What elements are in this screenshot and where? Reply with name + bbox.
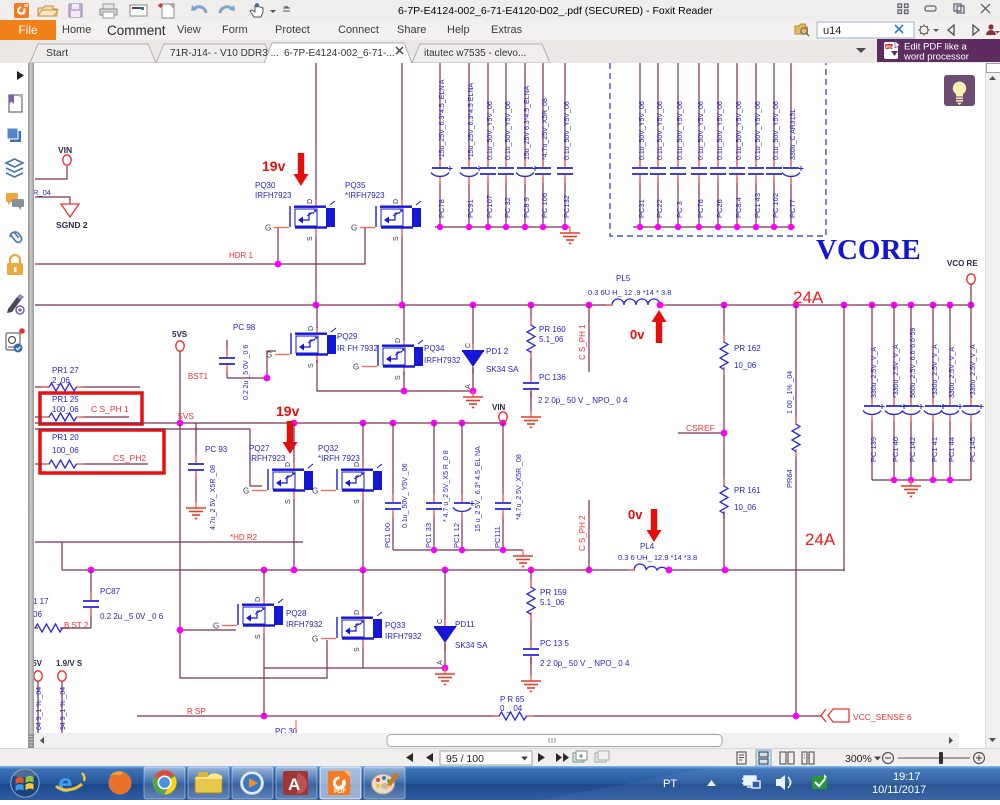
svg-text:PR1 27: PR1 27: [52, 366, 79, 375]
start orb: [10, 768, 40, 798]
resistor PR162: [723, 305, 725, 486]
transistor PQ28: [213, 597, 283, 639]
svg-text:IRFH7923: IRFH7923: [249, 454, 286, 463]
svg-text:PC91: PC91: [466, 199, 475, 218]
svg-text:330u_2.5V_V_A: 330u_2.5V_V_A: [949, 347, 956, 398]
svg-text:SK34 SA: SK34 SA: [486, 365, 519, 374]
svg-text:PT: PT: [663, 778, 677, 790]
svg-text:0v: 0v: [628, 507, 643, 522]
svg-text:0.2 2u _5 0V _0 6: 0.2 2u _5 0V _0 6: [243, 345, 250, 400]
annotation arrow down 19v: [294, 153, 309, 186]
svg-text:94 9_1 % _04: 94 9_1 % _04: [60, 687, 67, 730]
svg-text:CS_PH2: CS_PH2: [113, 453, 146, 463]
svg-text:HDR 1: HDR 1: [229, 251, 254, 260]
svg-text:6-7P-E4124-002_6-71-E4120-D02_: 6-7P-E4124-002_6-71-E4120-D02_.pdf (SECU…: [398, 5, 713, 17]
svg-text:e: e: [58, 768, 72, 798]
svg-text:PQ28: PQ28: [286, 609, 307, 618]
svg-text:2_06: 2_06: [52, 376, 70, 385]
junction R SP dots: [261, 713, 268, 720]
Firefox: [108, 771, 131, 794]
wire PQ33 drain: [362, 570, 364, 611]
WMP box: [232, 767, 273, 799]
svg-text:PC 98: PC 98: [233, 323, 256, 332]
transistor PQ35: [351, 199, 421, 241]
ground PD12: [463, 391, 483, 408]
capacitor PC132: [557, 63, 573, 227]
svg-text:R SP: R SP: [187, 707, 206, 716]
svg-text:*330u_2.5V_V_A: *330u_2.5V_V_A: [970, 344, 977, 398]
capacitor PC136: [523, 374, 539, 398]
svg-text:P R 65: P R 65: [500, 695, 525, 704]
wire mid bank bottom rail: [393, 549, 523, 551]
ground PD11: [435, 668, 455, 685]
capacitor PC112: [452, 423, 482, 550]
svg-text:PC 106: PC 106: [540, 193, 549, 218]
svg-text:VIN: VIN: [58, 145, 72, 155]
svg-text:PR1 25: PR1 25: [52, 395, 79, 404]
svg-text:A: A: [437, 660, 444, 665]
svg-text:PQ27: PQ27: [249, 444, 270, 453]
svg-text:0 _ 04: 0 _ 04: [500, 704, 523, 713]
svg-text:24A: 24A: [793, 288, 824, 307]
svg-text:*HD R2: *HD R2: [230, 533, 258, 542]
svg-text:*4.7u_2 5V_X5R _08: *4.7u_2 5V_X5R _08: [516, 454, 523, 520]
junction HDR1: [275, 261, 282, 268]
svg-text:CSREF: CSREF: [686, 423, 715, 433]
svg-text:PL4: PL4: [640, 542, 655, 551]
svg-text:PC1 41: PC1 41: [930, 437, 939, 462]
svg-text:330u_C AR315L: 330u_C AR315L: [790, 109, 797, 160]
capacitor PC84: [729, 63, 745, 227]
svg-text:PDF: PDF: [334, 789, 346, 795]
wire PQ32 drain: [362, 423, 364, 463]
resistor PR161: [720, 479, 728, 519]
svg-text:u14: u14: [823, 25, 841, 37]
svg-text:0.2 2u _5 0V _0 6: 0.2 2u _5 0V _0 6: [100, 612, 164, 621]
svg-text:*15u_25V_6.3*4.5_ELN A: *15u_25V_6.3*4.5_ELN A: [439, 79, 446, 160]
svg-text:0.1u_50V_Y5V_06: 0.1u_50V_Y5V_06: [657, 101, 664, 160]
wire PQ33 source: [362, 647, 364, 668]
svg-text:PC8 9: PC8 9: [522, 197, 531, 218]
svg-text:PD1 2: PD1 2: [486, 347, 509, 356]
ground PC93: [186, 502, 206, 519]
capacitor PC91: [460, 63, 482, 227]
svg-text:PC 32: PC 32: [503, 197, 512, 218]
wire PQ28 source sense: [263, 668, 265, 716]
svg-text:PC 145: PC 145: [968, 437, 977, 462]
svg-text:5.1_06: 5.1_06: [539, 335, 564, 344]
capacitor PC100: [383, 423, 409, 550]
svg-text:PQ35: PQ35: [345, 181, 366, 190]
svg-text:2 2 0p_ 50 V _ NPO_ 0 4: 2 2 0p_ 50 V _ NPO_ 0 4: [540, 659, 630, 668]
wire PQ27 drain: [293, 423, 295, 463]
wire drain PQ30: [315, 63, 317, 200]
capacitor PC141: [924, 305, 946, 480]
svg-text:IRFH7923: IRFH7923: [255, 191, 292, 200]
wire VIN rail: [35, 422, 503, 424]
diode PD11: [444, 570, 446, 627]
svg-text:0.1u_50V_Y5V_06: 0.1u_50V_Y5V_06: [505, 101, 512, 160]
svg-text:100_06: 100_06: [52, 446, 79, 455]
wire bank2 bus: [633, 226, 795, 228]
svg-text:PC111: PC111: [493, 526, 502, 548]
IE: [56, 768, 84, 798]
capacitor PC102: [766, 63, 782, 227]
svg-text:*4.7u_25V_X5R_08: *4.7u_25V_X5R_08: [542, 98, 549, 160]
svg-text:0.1u_50V_Y5V_06: 0.1u_50V_Y5V_06: [564, 101, 571, 160]
wire source PQ30 to bus: [315, 236, 317, 305]
svg-text:0.3 6 UH_ 12.9 *14 *3.8: 0.3 6 UH_ 12.9 *14 *3.8: [618, 553, 697, 562]
capacitor PC133: [424, 423, 450, 550]
svg-text:PQ32: PQ32: [318, 444, 339, 453]
annotation red box CS_PH1: [40, 393, 142, 424]
svg-text:C S_PH 1: C S_PH 1: [578, 324, 587, 360]
wire bank1 bus: [435, 226, 570, 228]
svg-text:PDF: PDF: [886, 44, 895, 49]
capacitor PC139: [863, 305, 885, 480]
transistor PQ29: [266, 326, 336, 368]
svg-text:0v: 0v: [630, 327, 645, 342]
svg-text:0.1u_50V_Y5V_06: 0.1u_50V_Y5V_06: [755, 101, 762, 160]
ground output bank: [901, 480, 921, 497]
svg-text:PC 142: PC 142: [908, 437, 917, 462]
svg-text:PC87: PC87: [100, 587, 121, 596]
wire R SP line: [137, 715, 822, 717]
svg-text:*IRFH 7923: *IRFH 7923: [318, 454, 360, 463]
svg-text:VCC_SENSE 6: VCC_SENSE 6: [853, 712, 912, 722]
svg-text:*IRFH7923: *IRFH7923: [345, 191, 385, 200]
svg-text:1.9/V S: 1.9/V S: [56, 659, 83, 668]
svg-text:0.1u_50V_Y5V_06: 0.1u_50V_Y5V_06: [677, 101, 684, 160]
svg-text:0.1u_50V_Y5V_06: 0.1u_50V_Y5V_06: [717, 101, 724, 160]
ground bank1: [560, 227, 580, 244]
capacitor PC111: [493, 423, 523, 550]
node VCORE dashed box: [610, 63, 826, 236]
svg-text:VIN: VIN: [492, 403, 506, 412]
transistor PQ33: [312, 610, 382, 652]
ground PC135: [521, 675, 541, 692]
svg-text:15u_25V 6.3*4.5_ELNA: 15u_25V 6.3*4.5_ELNA: [524, 85, 531, 160]
svg-text:0.1u_50V_Y5V_06: 0.1u_50V_Y5V_06: [773, 101, 780, 160]
svg-text:PC76: PC76: [696, 199, 705, 218]
capacitor PC89: [516, 63, 538, 227]
svg-text:PC 136: PC 136: [539, 373, 566, 382]
svg-text:PC1 40: PC1 40: [891, 437, 900, 462]
resistor PR65: [492, 712, 534, 720]
svg-text:PC31: PC31: [637, 199, 646, 218]
svg-text:VCO RE: VCO RE: [947, 259, 978, 268]
svg-text:PC1 43: PC1 43: [753, 193, 762, 218]
svg-text:0.1u_50V_Y5V_06: 0.1u_50V_Y5V_06: [487, 101, 494, 160]
inductor PL5: [612, 299, 660, 305]
capacitor PC143: [748, 63, 764, 227]
svg-text:0.1u_50V_Y5V_06: 0.1u_50V_Y5V_06: [736, 101, 743, 160]
capacitor PC142: [902, 305, 924, 480]
svg-text:0.1u_ 50V_ Y5V _06: 0.1u_ 50V_ Y5V _06: [402, 463, 409, 528]
svg-text:R_04: R_04: [34, 188, 51, 197]
annotation 0v up arrow: [652, 310, 667, 343]
svg-text:64 9_1 % _04: 64 9_1 % _04: [36, 687, 43, 730]
svg-text:PC22: PC22: [655, 199, 664, 218]
node VCC_SENSE connector: [821, 709, 849, 722]
svg-text:19v: 19v: [276, 403, 300, 419]
svg-text:IR FH 7932: IR FH 7932: [337, 344, 378, 353]
capacitor PC93: [195, 423, 197, 502]
node VIN (left): [63, 155, 71, 165]
wire gate drive HDR2: [180, 423, 327, 678]
svg-text:5.1_06: 5.1_06: [540, 598, 565, 607]
wire low-side return: [317, 360, 473, 391]
ground SGND2 symbol: [61, 204, 79, 217]
wire PQ28 drain: [263, 570, 265, 598]
wire phase2 bus: [35, 542, 844, 571]
svg-text:PR 161: PR 161: [734, 486, 761, 495]
svg-text:330u_2.5V_V_A: 330u_2.5V_V_A: [871, 347, 878, 398]
junction VIN rail dots: [177, 420, 507, 427]
capacitor PC3: [670, 63, 686, 227]
wire PQ28 source: [264, 634, 445, 668]
svg-text:PC77: PC77: [788, 199, 797, 218]
svg-text:10_06: 10_06: [734, 361, 757, 370]
svg-text:IRFH7932: IRFH7932: [424, 356, 461, 365]
svg-text:PD11: PD11: [455, 620, 475, 629]
svg-text:IRFH7932: IRFH7932: [286, 620, 323, 629]
svg-text:PC8.4: PC8.4: [734, 197, 743, 218]
svg-text:95 / 100: 95 / 100: [446, 753, 484, 765]
net CS_PH2 sense wire: [588, 500, 590, 570]
capacitor PC32: [498, 63, 514, 227]
svg-text:PC26: PC26: [715, 199, 724, 218]
svg-text:19v: 19v: [262, 158, 286, 174]
svg-text:24A: 24A: [805, 530, 836, 549]
capacitor PC144: [941, 305, 963, 480]
svg-text:560u_2.5V_6.6*6.6*59: 560u_2.5V_6.6*6.6*59: [910, 327, 917, 398]
svg-text:PR 160: PR 160: [539, 325, 566, 334]
svg-text:5VS: 5VS: [178, 411, 194, 421]
capacitor PC31: [632, 63, 648, 227]
annotation red box CS_PH2: [40, 430, 164, 473]
resistor PR64: [795, 305, 797, 716]
svg-text:100_06: 100_06: [52, 405, 79, 414]
svg-text:06: 06: [34, 610, 42, 619]
svg-text:1 00_ 1% _04: 1 00_ 1% _04: [787, 371, 794, 414]
svg-text:PC107: PC107: [485, 195, 494, 218]
svg-text:PQ33: PQ33: [385, 621, 406, 630]
svg-text:PC 139: PC 139: [869, 437, 878, 462]
svg-text:300%: 300%: [845, 753, 872, 765]
resistor PR159: [530, 570, 532, 647]
svg-text:SK34 SA: SK34 SA: [455, 641, 488, 650]
wire drain PQ35: [401, 63, 403, 200]
svg-text:A: A: [465, 384, 472, 389]
junction bank2 dots: [637, 224, 794, 230]
wire SGND stub: [35, 197, 70, 204]
ground PC136: [521, 411, 541, 428]
svg-text:C: C: [437, 619, 444, 624]
capacitor PC87: [90, 570, 92, 628]
svg-text:PC1 33: PC1 33: [424, 523, 433, 548]
net CS_PH1 sense wire: [588, 305, 590, 372]
svg-text:PR 162: PR 162: [734, 344, 761, 353]
svg-text:C: C: [465, 343, 472, 348]
svg-text:PC78: PC78: [437, 199, 446, 218]
wire source PQ35 to bus: [401, 236, 403, 305]
svg-text:4.7u_2 5V_ X5R _08: 4.7u_2 5V_ X5R _08: [210, 465, 217, 530]
svg-text:PQ29: PQ29: [337, 332, 358, 341]
Chrome box: [144, 767, 185, 799]
wire main bus 24A: [35, 304, 971, 306]
svg-text:PC 13 5: PC 13 5: [540, 639, 569, 648]
svg-text:.5V: .5V: [34, 659, 43, 668]
transistor PQ34: [353, 338, 423, 380]
wire PQ32 source: [362, 499, 364, 571]
capacitor PC98: [226, 340, 228, 378]
diode PD12: [472, 305, 474, 351]
Access box: [276, 767, 317, 799]
svg-text:A: A: [288, 775, 300, 794]
svg-text:0.3 6U H_ 12 .9 *14 * 3.8: 0.3 6U H_ 12 .9 *14 * 3.8: [588, 288, 671, 297]
capacitor PC22: [650, 63, 666, 227]
capacitor PC77: [782, 63, 804, 227]
junction bank1 dots: [437, 224, 568, 230]
svg-text:*15u_25V_6.3*4.5 ELNA: *15u_25V_6.3*4.5 ELNA: [468, 83, 475, 160]
capacitor PC140: [885, 305, 907, 480]
ground mid bank: [513, 550, 533, 567]
svg-text:PC1 44: PC1 44: [947, 437, 956, 462]
Paint box: [364, 767, 405, 799]
svg-text:PC1 12: PC1 12: [452, 523, 461, 548]
capacitor PC107: [480, 63, 496, 227]
svg-text:2 2 0p_ 50 V _ NPO_ 0 4: 2 2 0p_ 50 V _ NPO_ 0 4: [538, 396, 628, 405]
wire HDR1: [35, 228, 365, 264]
capacitor PC145: [962, 305, 984, 480]
svg-text:PL5: PL5: [616, 274, 631, 283]
wire PQ27 source: [293, 499, 295, 571]
wire PQ34 drain: [403, 305, 405, 340]
svg-text:0.1u_50V_Y5V_06: 0.1u_50V_Y5V_06: [639, 101, 646, 160]
svg-text:SGND 2: SGND 2: [56, 220, 88, 230]
svg-text:*330u_2.5V_V_A: *330u_2.5V_V_A: [893, 344, 900, 398]
Explorer box: [188, 767, 229, 799]
svg-text:5VS: 5VS: [172, 330, 188, 339]
svg-text:10_06: 10_06: [734, 503, 757, 512]
wire PQ29 drain: [316, 305, 318, 328]
svg-text:PC 3: PC 3: [675, 201, 684, 218]
svg-text:BST1: BST1: [188, 372, 209, 381]
capacitor PC135: [523, 640, 539, 664]
svg-text:PC1 00: PC1 00: [383, 523, 392, 548]
svg-text:IRFH7932: IRFH7932: [385, 632, 422, 641]
resistor PR127: [35, 386, 140, 388]
svg-text:word processor: word processor: [903, 52, 969, 63]
svg-text:VCORE: VCORE: [816, 234, 921, 266]
svg-text:1 17: 1 17: [34, 597, 49, 606]
svg-text:*330u_2.5V_V_A: *330u_2.5V_V_A: [932, 344, 939, 398]
capacitor PC76: [691, 63, 707, 227]
capacitor PC78: [431, 63, 453, 227]
svg-text:PC132: PC132: [562, 195, 571, 218]
junction main bus dots: [313, 302, 975, 309]
svg-text:PQ30: PQ30: [255, 181, 276, 190]
svg-text:PR64: PR64: [785, 469, 794, 488]
svg-text:* 4.7 u_2 5V_X5 R_0 8: * 4.7 u_2 5V_X5 R_0 8: [443, 450, 450, 522]
svg-text:PC 93: PC 93: [205, 445, 228, 454]
transistor PQ27: [243, 462, 313, 504]
capacitor PC106: [535, 63, 551, 227]
svg-text:0.1u_50V_Y5V_06: 0.1u_50V_Y5V_06: [698, 101, 705, 160]
wire VIN stub: [35, 166, 67, 179]
svg-text:PQ34: PQ34: [424, 344, 445, 353]
inductor PL4: [634, 564, 667, 570]
wire 24A loop: [843, 305, 845, 571]
svg-text:19:17: 19:17: [893, 771, 921, 783]
wire output bank bottom rail: [872, 479, 971, 481]
svg-text:C S_PH 1: C S_PH 1: [91, 404, 129, 414]
transistor PQ32: [312, 462, 382, 504]
resistor PR160: [530, 305, 532, 381]
Foxit box (active): [320, 767, 361, 799]
svg-text:PR 159: PR 159: [540, 588, 567, 597]
svg-text:10/11/2017: 10/11/2017: [872, 784, 926, 796]
svg-text:C S_PH 2: C S_PH 2: [578, 515, 587, 551]
transistor PQ30: [265, 199, 335, 241]
wire gate rail: [35, 429, 262, 486]
junction phase2 dots: [88, 567, 729, 574]
svg-text:PC 102: PC 102: [771, 193, 780, 218]
capacitor PC26: [710, 63, 726, 227]
svg-text:PR1 20: PR1 20: [52, 433, 79, 442]
svg-text:15 u_2 5V_ 6.3* 4.5_EL NA: 15 u_2 5V_ 6.3* 4.5_EL NA: [475, 446, 482, 532]
